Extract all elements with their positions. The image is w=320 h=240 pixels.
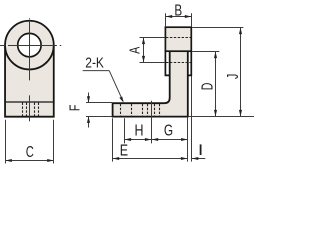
svg-text:A: A [126,46,143,53]
svg-text:D: D [198,83,216,91]
svg-text:2-K: 2-K [85,54,104,71]
svg-text:J: J [224,74,242,79]
svg-text:B: B [174,1,182,19]
svg-text:G: G [164,121,173,139]
svg-text:F: F [66,104,83,111]
svg-text:C: C [26,142,34,161]
svg-text:E: E [120,142,128,160]
svg-text:H: H [134,122,143,140]
